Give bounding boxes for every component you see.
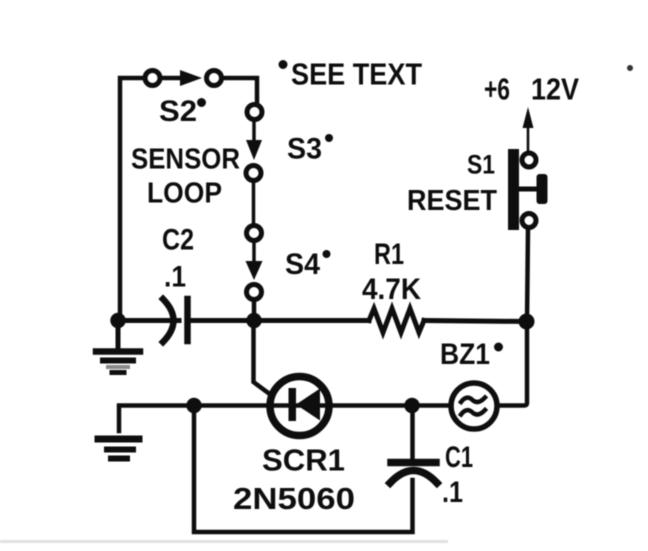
switch S4 terminal circle (top) bbox=[247, 226, 262, 241]
svg-text:SENSOR: SENSOR bbox=[131, 144, 240, 176]
power +6-12V terminal arrow bbox=[523, 107, 534, 150]
junction node B (R1 / S1 / BZ1) bbox=[519, 314, 535, 330]
buzzer BZ1 bbox=[451, 383, 497, 429]
switch S3 terminal circle (bottom) bbox=[246, 166, 261, 181]
wire: S3 bottom terminal to S4 top terminal bbox=[252, 181, 256, 226]
junction node A (sensor loop / C2 / R1 / gate) bbox=[246, 313, 261, 328]
label S3* bbox=[287, 133, 333, 166]
junction node D (gate return / bottom loop) bbox=[186, 398, 201, 413]
label S4* bbox=[285, 248, 331, 281]
svg-text:.1: .1 bbox=[164, 261, 186, 294]
resistor R1 bbox=[369, 309, 424, 333]
switch S4 arrow contact bbox=[246, 241, 263, 280]
switch S3 arrow contact bbox=[246, 120, 262, 160]
capacitor C1 (straight plate) bbox=[391, 459, 436, 467]
svg-text:SCR1: SCR1 bbox=[262, 443, 345, 478]
svg-text:4.7K: 4.7K bbox=[362, 273, 421, 306]
thyristor SCR1 bbox=[270, 377, 329, 436]
svg-text:S3: S3 bbox=[287, 133, 322, 166]
wire: node C down to capacitor C1 bbox=[410, 406, 415, 460]
wire: C2 to resistor R1 through node A bbox=[191, 318, 369, 323]
wire: node D down, bottom return, up to capacitor C1 bbox=[194, 406, 413, 533]
svg-text:RESET: RESET bbox=[407, 185, 497, 217]
note *SEE TEXT bbox=[279, 57, 423, 92]
label BZ1* bbox=[440, 338, 503, 371]
svg-text:R1: R1 bbox=[374, 238, 404, 271]
scan artifact: small dot top right bbox=[627, 65, 633, 71]
switch S2 terminal circle (left) bbox=[145, 71, 160, 86]
switch S2 terminal circle (right) bbox=[207, 71, 222, 86]
junction node C (SCR anode / C1 / BZ1) bbox=[404, 398, 419, 413]
capacitor C1 (curved plate) bbox=[390, 471, 437, 484]
ground (bottom, cathode return) bbox=[98, 439, 139, 459]
wire: left vertical bus from top corner down to left ground node bbox=[120, 78, 141, 320]
capacitor C2 (curved plate) bbox=[163, 299, 174, 342]
pushbutton S1 RESET bbox=[508, 149, 548, 230]
svg-text:S1: S1 bbox=[467, 150, 495, 180]
svg-text:C2: C2 bbox=[162, 224, 194, 257]
wire: R1 to node B bbox=[424, 321, 527, 322]
wire: node C to BZ1 left terminal bbox=[412, 403, 447, 408]
ground (left, sensor bus) bbox=[96, 320, 140, 373]
svg-text:+6: +6 bbox=[484, 72, 510, 107]
wire: left ground node to capacitor C2 bbox=[120, 318, 179, 323]
svg-text:S2: S2 bbox=[159, 95, 197, 128]
switch S2 arrow contact bbox=[161, 70, 202, 86]
wire: node B down to buzzer BZ1 right terminal bbox=[500, 322, 527, 406]
switch S3 terminal circle (top) bbox=[247, 105, 262, 120]
label S2* bbox=[159, 95, 206, 128]
svg-text:LOOP: LOOP bbox=[147, 178, 222, 210]
svg-text:.1: .1 bbox=[442, 476, 463, 509]
svg-text:BZ1: BZ1 bbox=[440, 338, 490, 371]
junction: left ground node dot bbox=[110, 313, 125, 328]
svg-text:SEE TEXT: SEE TEXT bbox=[291, 57, 422, 92]
wire: S2 right terminal to top-right corner, down to S3 bbox=[222, 78, 257, 104]
scan artifact: faint streak bottom left bbox=[0, 540, 448, 543]
switch S4 terminal circle (bottom) bbox=[247, 285, 262, 300]
svg-text:S4: S4 bbox=[285, 248, 320, 281]
svg-text:C1: C1 bbox=[445, 441, 473, 474]
svg-text:12V: 12V bbox=[531, 72, 579, 107]
capacitor C2 (straight plate) bbox=[184, 299, 191, 341]
wire: S1 bottom terminal down to node B bbox=[527, 228, 528, 321]
wire: SCR cathode row - left corner through SCR1 to node C bbox=[119, 406, 412, 432]
wire: S4 bottom terminal down to node A bbox=[252, 300, 257, 320]
wire: gate lead from node A down to SCR1 gate bbox=[254, 329, 272, 395]
svg-text:2N5060: 2N5060 bbox=[233, 481, 355, 516]
